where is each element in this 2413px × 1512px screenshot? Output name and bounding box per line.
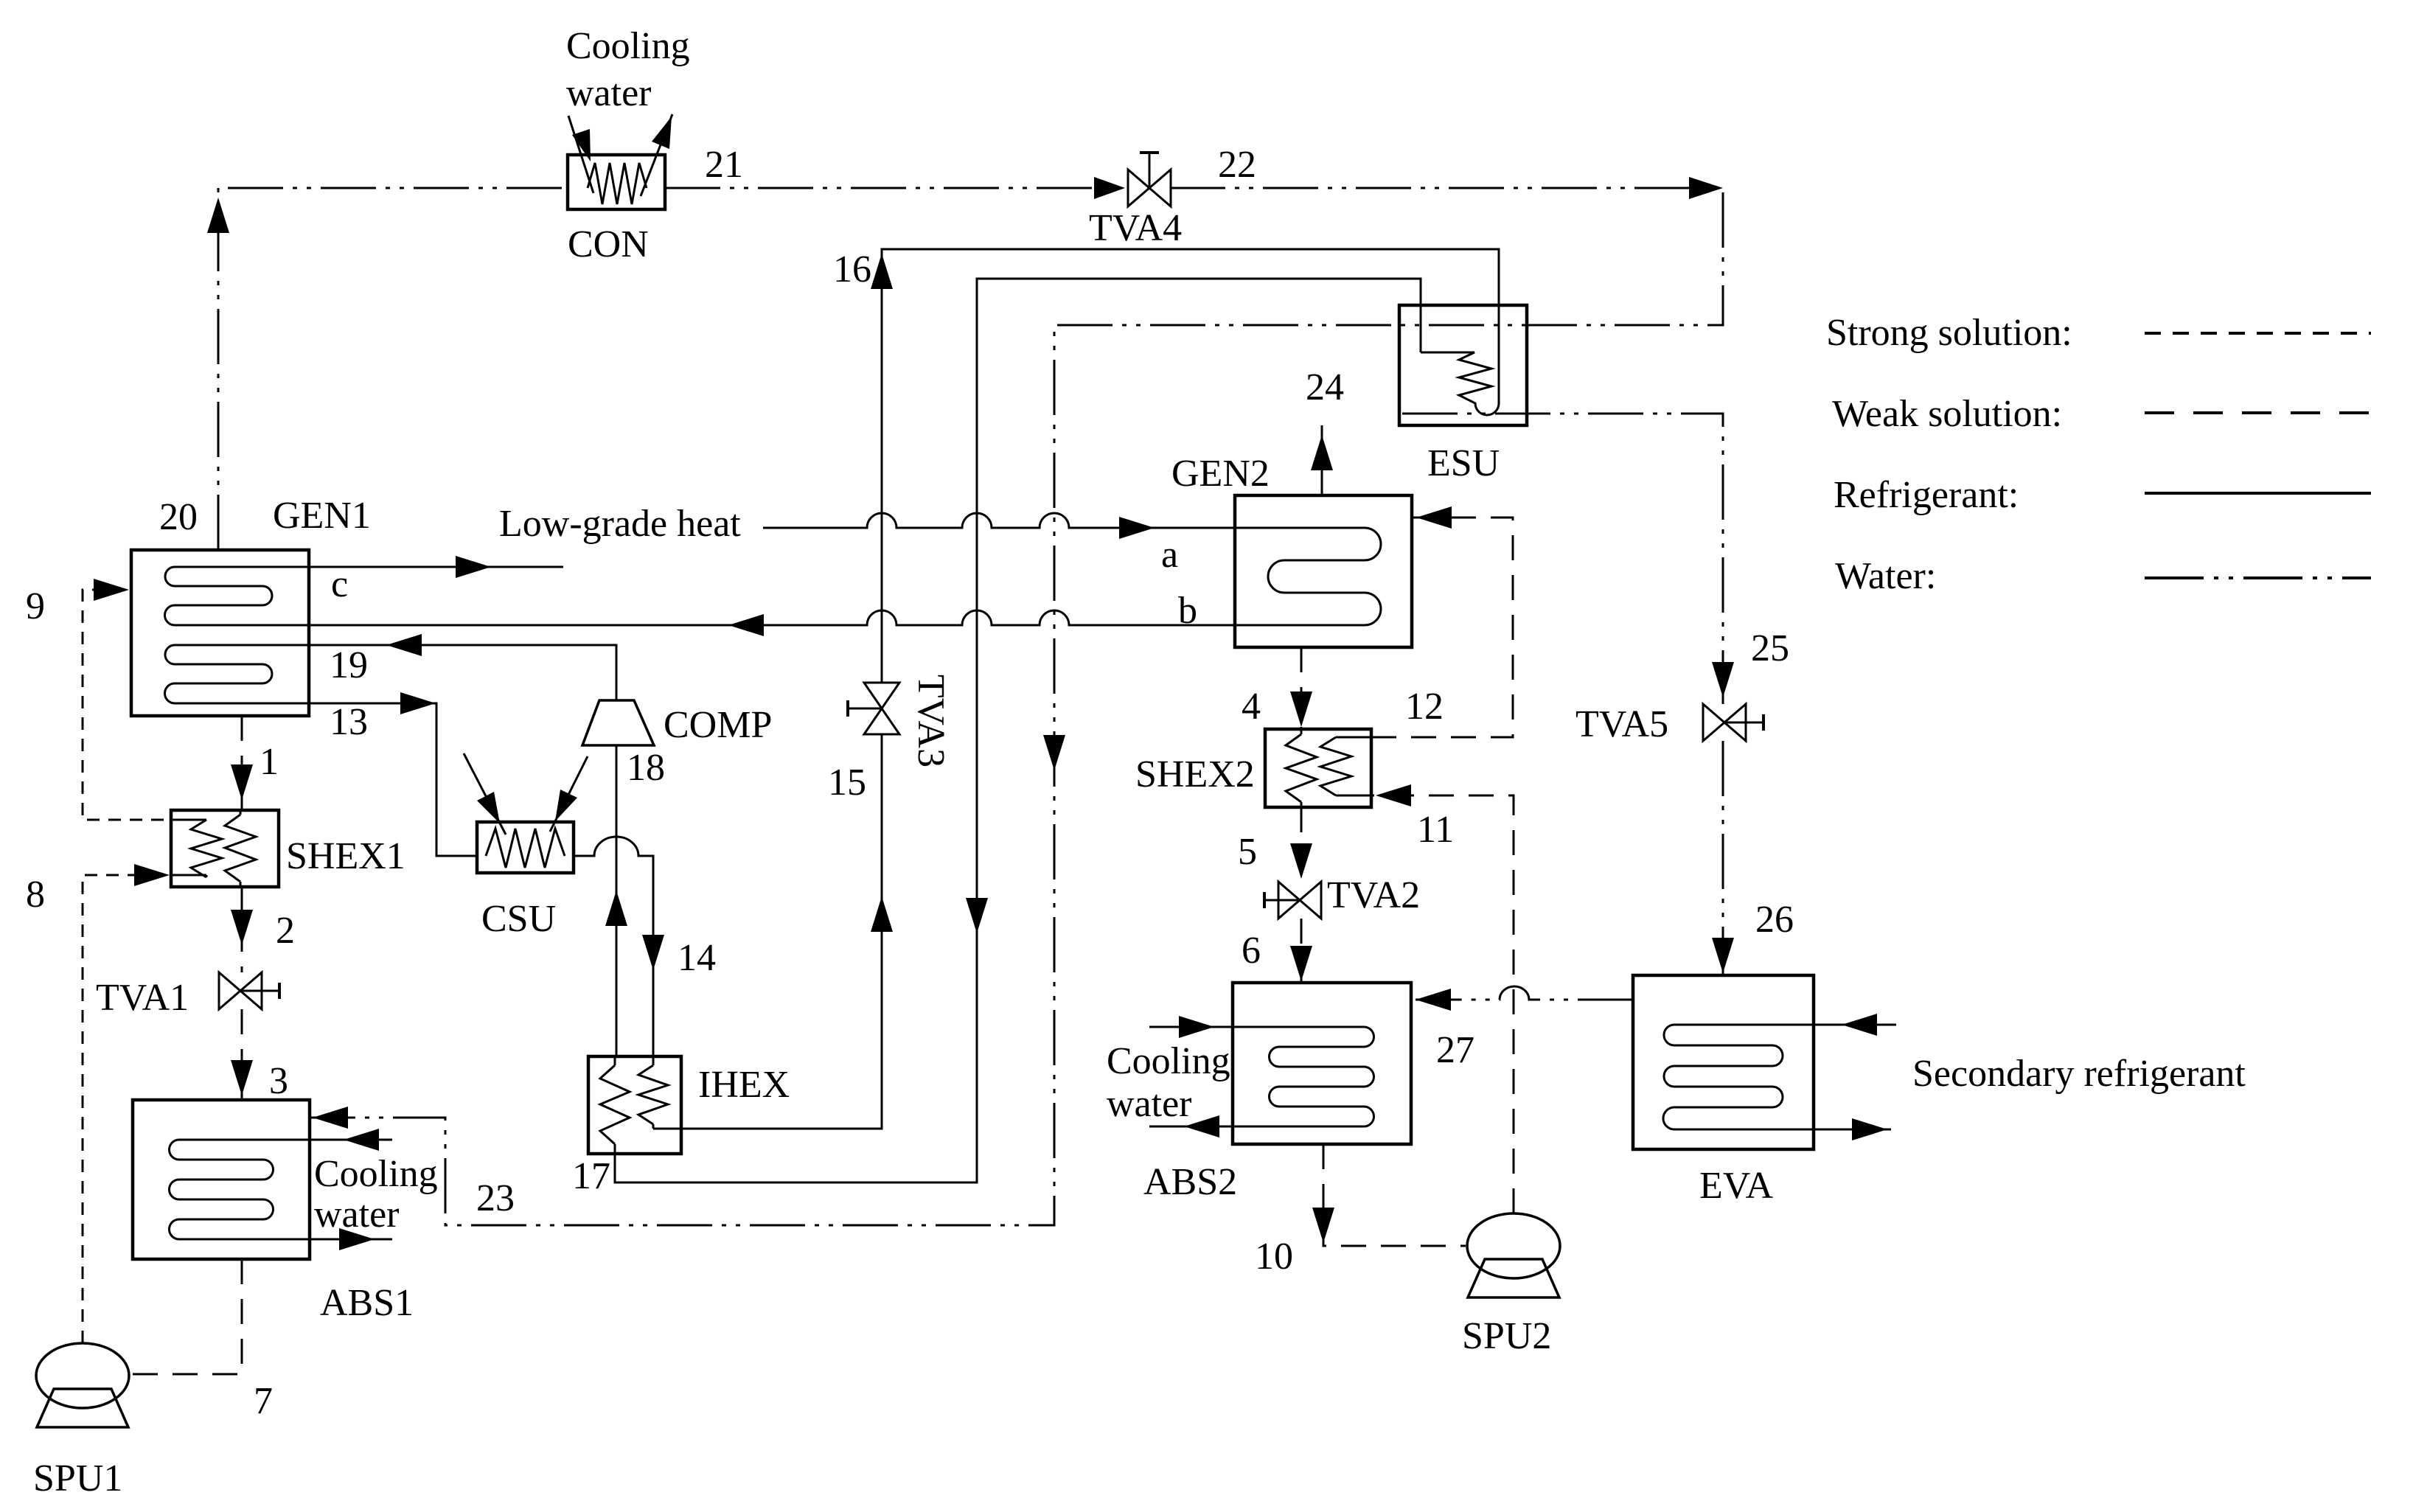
svg-text:27: 27 xyxy=(1436,1029,1474,1071)
svg-text:12: 12 xyxy=(1405,686,1444,728)
svg-text:20: 20 xyxy=(159,496,198,538)
svg-text:Cooling: Cooling xyxy=(314,1153,438,1195)
svg-text:TVA5: TVA5 xyxy=(1575,703,1668,745)
svg-text:16: 16 xyxy=(833,248,871,290)
svg-text:10: 10 xyxy=(1255,1236,1293,1278)
svg-text:Water:: Water: xyxy=(1835,555,1936,597)
svg-text:22: 22 xyxy=(1218,144,1256,186)
svg-text:18: 18 xyxy=(627,747,665,789)
svg-text:3: 3 xyxy=(269,1060,288,1102)
svg-text:GEN1: GEN1 xyxy=(273,495,371,537)
svg-text:9: 9 xyxy=(26,585,45,627)
svg-text:Cooling: Cooling xyxy=(1107,1040,1230,1082)
svg-text:24: 24 xyxy=(1306,366,1344,408)
svg-text:CSU: CSU xyxy=(481,898,556,940)
svg-text:IHEX: IHEX xyxy=(698,1064,790,1106)
svg-text:Strong solution:: Strong solution: xyxy=(1826,312,2072,354)
svg-text:TVA3: TVA3 xyxy=(910,675,952,767)
svg-text:5: 5 xyxy=(1238,831,1257,873)
svg-text:ABS1: ABS1 xyxy=(320,1282,414,1324)
svg-text:b: b xyxy=(1178,590,1197,632)
svg-text:water: water xyxy=(566,72,651,114)
svg-text:SHEX1: SHEX1 xyxy=(286,835,405,877)
svg-text:7: 7 xyxy=(254,1380,273,1422)
svg-text:SHEX2: SHEX2 xyxy=(1135,753,1255,795)
svg-text:2: 2 xyxy=(276,910,295,952)
svg-text:water: water xyxy=(1107,1083,1191,1125)
svg-text:14: 14 xyxy=(678,937,716,979)
svg-text:15: 15 xyxy=(828,762,866,804)
svg-text:23: 23 xyxy=(476,1177,515,1219)
svg-text:13: 13 xyxy=(330,701,368,743)
svg-text:GEN2: GEN2 xyxy=(1171,453,1270,495)
svg-text:11: 11 xyxy=(1417,809,1454,851)
svg-text:21: 21 xyxy=(705,144,743,186)
svg-text:1: 1 xyxy=(260,741,279,783)
svg-text:4: 4 xyxy=(1242,686,1261,728)
svg-text:water: water xyxy=(314,1194,399,1236)
svg-text:19: 19 xyxy=(330,644,368,686)
svg-text:Weak solution:: Weak solution: xyxy=(1832,393,2062,435)
svg-text:26: 26 xyxy=(1755,899,1794,941)
svg-text:c: c xyxy=(331,563,348,605)
svg-text:SPU1: SPU1 xyxy=(33,1457,122,1499)
svg-text:TVA1: TVA1 xyxy=(96,977,189,1019)
svg-text:Refrigerant:: Refrigerant: xyxy=(1834,474,2019,516)
svg-text:a: a xyxy=(1161,534,1178,576)
svg-text:TVA4: TVA4 xyxy=(1089,207,1182,249)
svg-text:17: 17 xyxy=(572,1155,610,1197)
svg-text:6: 6 xyxy=(1242,930,1261,972)
svg-text:ESU: ESU xyxy=(1427,442,1500,484)
svg-text:EVA: EVA xyxy=(1699,1165,1774,1207)
svg-text:Low-grade heat: Low-grade heat xyxy=(499,503,741,545)
svg-text:CON: CON xyxy=(568,223,649,265)
svg-text:25: 25 xyxy=(1751,627,1789,669)
svg-text:COMP: COMP xyxy=(664,704,772,746)
svg-text:Cooling: Cooling xyxy=(566,25,690,67)
svg-text:Secondary refrigerant: Secondary refrigerant xyxy=(1912,1053,2246,1095)
svg-text:SPU2: SPU2 xyxy=(1462,1315,1551,1357)
svg-text:ABS2: ABS2 xyxy=(1143,1161,1237,1203)
svg-text:TVA2: TVA2 xyxy=(1327,874,1420,916)
svg-text:8: 8 xyxy=(26,874,45,916)
